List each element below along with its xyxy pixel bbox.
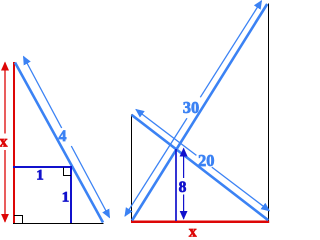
left triangle: black base [13,223,104,225]
svg-text:8: 8 [179,179,187,196]
dimension arrow 4 (hypotenuse length), gapped for label [24,57,110,218]
svg-text:1: 1 [62,190,70,206]
svg-text:x: x [189,224,197,240]
left triangle: right-angle mark at bottom-left corner [14,216,23,224]
right figure: red base [131,221,269,224]
vertical segment at crossing (height 8) [175,149,177,221]
dimension arrow x (left figure), gapped for label [0,63,8,222]
svg-text:20: 20 [198,151,215,170]
dimension arrow 8, gapped for label [179,149,187,219]
diagonal line 30 (bottom-left to top-right) [132,4,267,221]
diagonal line 20 (top-left to bottom-right) [132,115,269,220]
dimension arrow 30, gapped for label [125,1,262,216]
right-angle mark at inner corner [64,168,72,176]
inner blue vertical segment (drop 1) [70,166,72,223]
right figure: right pole [268,4,270,221]
svg-text:1: 1 [36,168,44,184]
dimension arrow 20, gapped for label [136,110,269,211]
left triangle: red vertical leg [13,62,15,224]
svg-text:4: 4 [59,128,67,145]
svg-text:30: 30 [183,98,200,117]
left triangle: blue hypotenuse [15,63,103,223]
inner blue horizontal segment (run 1) [13,166,72,168]
svg-text:x: x [0,134,8,151]
right figure: left pole [131,115,133,221]
